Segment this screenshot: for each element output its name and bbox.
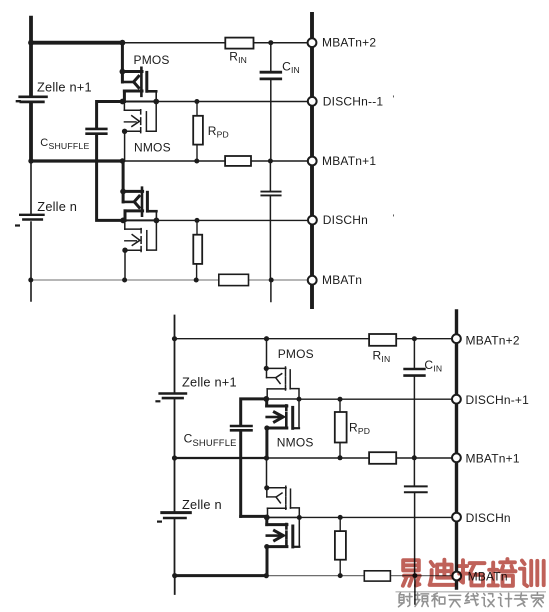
labels, bottom circuit <box>182 334 529 584</box>
right bus (top circuit) <box>310 14 314 307</box>
svg-text:NMOS: NMOS <box>134 141 171 155</box>
battery cell Zelle n+1 (bottom circuit) <box>157 394 186 402</box>
svg-text:DISCHn--1: DISCHn--1 <box>323 94 384 108</box>
svg-text:PMOS: PMOS <box>278 347 314 361</box>
battery cell Zelle n+1 (top circuit) <box>17 97 47 102</box>
wire: MBATn+1 row (top circuit) <box>31 159 122 162</box>
wire: left bus lower thin segment <box>30 161 32 301</box>
watermark logo text (vector CJK) <box>403 559 544 586</box>
terminal DISCHn (bottom circuit) <box>452 513 461 522</box>
wire: MBATn+2 row (top circuit) <box>122 42 310 44</box>
svg-text:Zelle n+1: Zelle n+1 <box>37 80 92 95</box>
wire: MBATn row (top circuit, light) <box>31 279 310 281</box>
node dots (bottom circuit) <box>172 336 418 578</box>
resistor RIN (bottom circuit) <box>369 334 396 346</box>
svg-text:DISCHn: DISCHn <box>466 511 511 525</box>
watermark divider line <box>396 591 547 593</box>
svg-text:': ' <box>393 213 395 223</box>
svg-text:DISCHn: DISCHn <box>323 213 368 227</box>
terminal DISCHn+1 (bottom circuit) <box>452 395 461 404</box>
resistor (bottom circuit, lower pulldown) <box>335 517 346 575</box>
resistor (bottom circuit, MBATn row) <box>364 571 390 581</box>
capacitor CIN (bottom circuit) <box>405 339 425 458</box>
svg-text:Zelle n: Zelle n <box>37 199 77 214</box>
capacitor (top circuit, unlabeled middle) <box>261 161 280 302</box>
capacitor CIN (top circuit) <box>261 43 281 161</box>
svg-text:CSHUFFLE: CSHUFFLE <box>40 137 89 151</box>
svg-text:MBATn+1: MBATn+1 <box>466 452 520 466</box>
wire: DISCHn+1 node row (bottom circuit) <box>266 398 299 400</box>
svg-text:CIN: CIN <box>282 60 300 76</box>
svg-text:CIN: CIN <box>424 358 442 374</box>
left bus (cell string, top circuit) <box>31 18 122 161</box>
resistor RPD (bottom circuit, upper) <box>335 399 347 458</box>
svg-text:MBATn+2: MBATn+2 <box>322 35 376 49</box>
transistor PMOS (bottom circuit, upper) <box>267 367 300 399</box>
right bus (bottom circuit) <box>455 311 458 588</box>
resistor RPD (top circuit, upper) <box>193 102 203 162</box>
transistor PMOS (top circuit, upper) <box>122 68 156 102</box>
transistor PMOS (bottom circuit, lower) <box>267 486 300 517</box>
svg-text:': ' <box>393 94 395 104</box>
capacitor CSHUFFLE (bottom circuit) <box>231 399 267 517</box>
watermark slogan text (vector CJK) <box>399 593 544 607</box>
svg-text:NMOS: NMOS <box>277 436 314 450</box>
terminal MBATn (bottom circuit) <box>452 572 461 581</box>
wire: MBATn+1 row (bottom circuit) <box>175 457 267 459</box>
svg-text:MBATn: MBATn <box>322 273 362 287</box>
terminal MBATn+2 (top circuit) <box>308 38 317 47</box>
terminal MBATn+1 (bottom circuit) <box>452 453 461 462</box>
transistor PMOS (top circuit, lower) <box>123 188 156 221</box>
transistor NMOS (top circuit, lower) <box>125 220 157 280</box>
resistor (top circuit, MBATn row) <box>219 274 249 285</box>
terminal DISCHn+1 (top circuit) <box>308 97 317 106</box>
capacitor CSHUFFLE (top circuit) <box>87 102 124 221</box>
terminal MBATn+1 (top circuit) <box>308 157 317 166</box>
left bus (cell string, bottom circuit) <box>174 316 176 595</box>
terminal DISCHn (top circuit) <box>308 216 317 225</box>
wire: row to lower PMOS source (bottom circuit) <box>266 458 268 487</box>
resistor (top circuit, lower pulldown) <box>193 220 202 280</box>
svg-text:MBATn+2: MBATn+2 <box>466 334 520 348</box>
svg-text:MBATn+1: MBATn+1 <box>322 154 376 168</box>
resistor (top circuit, MBATn+1 row) <box>225 156 251 166</box>
wire: row to PMOS source (bottom circuit) <box>266 339 268 368</box>
wire: DISCHn node row (top circuit) <box>123 219 156 221</box>
battery cell Zelle n (top circuit) <box>16 215 43 226</box>
capacitor (bottom circuit, unlabeled middle) <box>405 458 427 604</box>
node dots (top circuit) <box>28 40 274 283</box>
terminal MBATn+2 (bottom circuit) <box>452 334 461 343</box>
wire: DISCHn+1 node row (top circuit) <box>123 101 157 103</box>
transistor NMOS (top circuit, upper) <box>124 102 156 162</box>
svg-text:RIN: RIN <box>373 349 391 365</box>
svg-text:PMOS: PMOS <box>134 53 170 67</box>
transistor NMOS (bottom circuit, upper) <box>267 399 299 458</box>
svg-text:DISCHn-+1: DISCHn-+1 <box>466 393 530 407</box>
wire: DISCHn node row (bottom circuit) <box>267 516 300 518</box>
wire: MBATn+2 row (bottom circuit) <box>175 338 455 340</box>
svg-text:Zelle n+1: Zelle n+1 <box>182 375 237 390</box>
svg-text:RIN: RIN <box>229 50 247 66</box>
wire: bus to PMOS source <box>121 43 124 71</box>
labels, top circuit <box>37 35 395 286</box>
resistor (bottom circuit, MBATn+1 row) <box>369 452 396 464</box>
transistor NMOS (bottom circuit, lower) <box>267 517 300 575</box>
wire: MBATn+1 row to lower PMOS source <box>122 161 125 190</box>
svg-text:RPD: RPD <box>349 421 370 437</box>
svg-text:CSHUFFLE: CSHUFFLE <box>184 432 237 448</box>
svg-text:RPD: RPD <box>208 124 229 140</box>
resistor RIN (top circuit) <box>225 38 253 49</box>
battery cell Zelle n (bottom circuit) <box>158 513 190 522</box>
svg-text:Zelle n: Zelle n <box>182 497 222 512</box>
terminal MBATn (top circuit) <box>308 276 317 285</box>
wire: MBATn row (bottom circuit) <box>175 574 267 577</box>
